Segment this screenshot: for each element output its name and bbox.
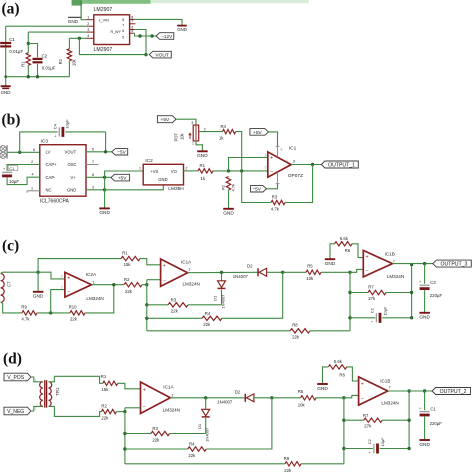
svg-text:+: + [270, 156, 273, 162]
resistor R5 (c) 10k [306, 263, 321, 280]
resistor R2 (c) 22k [124, 277, 142, 294]
svg-text:VOUT: VOUT [155, 53, 168, 59]
svg-text:−5V: −5V [252, 187, 261, 193]
resistor R10 22k [69, 305, 85, 322]
svg-text:R2: R2 [58, 58, 63, 64]
wire POT to ground [196, 141, 202, 151]
svg-text:7: 7 [122, 24, 124, 28]
svg-text:IC1A: IC1A [163, 384, 174, 389]
svg-text:R7: R7 [368, 285, 374, 290]
wire V+ power stub [269, 132, 280, 157]
svg-text:+5V: +5V [253, 130, 263, 136]
svg-text:+: + [366, 254, 369, 260]
flag OUTPUT_3 [433, 260, 472, 268]
svg-text:C3: C3 [430, 280, 436, 285]
svg-text:D2: D2 [235, 390, 241, 395]
svg-text:8: 8 [122, 18, 124, 22]
svg-text:6: 6 [122, 29, 124, 33]
wire coil bottom to R9 [1, 302, 22, 313]
resistor R8 (d) 22k [284, 456, 301, 473]
svg-text:GND: GND [325, 261, 336, 267]
svg-text:3: 3 [87, 28, 89, 32]
svg-text:(b): (b) [2, 112, 21, 129]
svg-text:LM324N: LM324N [86, 296, 103, 301]
svg-text:−: − [366, 269, 369, 275]
svg-text:IC1: IC1 [289, 146, 297, 152]
transformer TR1 [40, 380, 60, 407]
resistor R3 (b) 4.7k [271, 194, 285, 211]
resistor R2 (a) 10k [58, 38, 77, 76]
svg-text:+: + [143, 387, 146, 393]
wire R9 to R10 [37, 311, 70, 314]
svg-text:R1: R1 [200, 163, 206, 168]
svg-text:+: + [369, 451, 371, 455]
svg-text:OUTPUT_2: OUTPUT_2 [440, 389, 467, 395]
svg-text:220µF: 220µF [430, 293, 443, 298]
svg-text:R7: R7 [363, 413, 369, 418]
section label (c) [2, 238, 19, 255]
svg-text:5: 5 [131, 29, 133, 33]
wire VO to R1 [184, 166, 199, 171]
ground symbol C1 (d) [419, 440, 430, 448]
svg-text:IC1B: IC1B [385, 251, 395, 256]
wire bottom feedback R8 (d) [125, 463, 285, 465]
wire V- power stub [267, 172, 280, 188]
wire top rail (c) [38, 259, 121, 273]
op-amp IC1B LM324N (d) [359, 377, 399, 406]
svg-text:TR1: TR1 [55, 387, 60, 396]
wire minus node vertical (d) [123, 408, 126, 464]
svg-text:LV: LV [46, 149, 51, 154]
flag -5V (b) [112, 149, 128, 156]
svg-text:−: − [163, 278, 166, 284]
svg-text:1: 1 [35, 378, 37, 382]
svg-text:+: + [163, 263, 166, 269]
svg-text:4: 4 [32, 173, 34, 177]
svg-text:LM35H: LM35H [168, 186, 184, 192]
resistor R1 (b) 1k [198, 163, 213, 181]
svg-text:1: 1 [87, 16, 89, 20]
svg-text:8: 8 [131, 15, 133, 19]
svg-text:15k: 15k [124, 262, 132, 267]
op-amp IC2A LM324N [65, 272, 104, 301]
svg-text:22k: 22k [188, 453, 196, 458]
svg-text:4.7k: 4.7k [231, 184, 236, 192]
diode D1 (d) 1N4007 [197, 398, 210, 442]
wire minus to IC1A (c) [147, 279, 161, 281]
svg-text:C2: C2 [367, 439, 372, 444]
svg-text:C1: C1 [9, 37, 15, 42]
ground symbol bottom-left (a) [1, 77, 11, 96]
svg-text:(d): (d) [3, 351, 22, 368]
wire R1 to IC1A plus (d) [118, 383, 141, 389]
svg-text:7: 7 [131, 20, 133, 24]
svg-text:LM2907: LM2907 [94, 7, 113, 13]
svg-text:R5: R5 [298, 389, 304, 394]
svg-text:22k: 22k [292, 334, 300, 339]
wire R4 down to minus node [236, 132, 242, 171]
net label GND at pin 1 [68, 17, 81, 24]
wire node to IC2A plus [38, 272, 65, 279]
resistor R2 (b) 4.7k vertical [221, 177, 236, 209]
svg-text:D1: D1 [197, 423, 202, 429]
svg-text:4.7k: 4.7k [271, 206, 280, 211]
svg-text:GND: GND [177, 27, 187, 32]
resistor R8 (c) 22k [290, 322, 310, 339]
wire D2 to R5 (d) [272, 397, 301, 399]
svg-text:GND: GND [223, 211, 234, 217]
svg-text:IC2: IC2 [145, 158, 153, 164]
ground symbol C3 (c) [419, 313, 430, 321]
flag OUTPUT_1 [321, 161, 358, 169]
svg-text:2: 2 [204, 127, 206, 131]
svg-text:10µF: 10µF [383, 306, 388, 316]
svg-text:1N4007: 1N4007 [233, 274, 249, 279]
svg-text:1N4007: 1N4007 [220, 294, 225, 309]
svg-text:1: 1 [188, 268, 190, 272]
resistor R4 (d) 22k [125, 398, 272, 458]
svg-text:R10: R10 [69, 305, 77, 310]
ground symbol right (a) [177, 26, 187, 33]
flag V_POS [4, 373, 31, 381]
svg-text:V+: V+ [71, 175, 77, 180]
svg-text:0.01µF: 0.01µF [9, 49, 23, 54]
svg-text:R3: R3 [171, 297, 177, 302]
wire plus branch (b) [229, 158, 268, 171]
svg-text:GND: GND [158, 177, 167, 182]
flag V_NEG [4, 407, 31, 415]
svg-text:−12V: −12V [161, 34, 173, 39]
wire R10 to output node [85, 285, 114, 313]
svg-text:22k: 22k [125, 289, 133, 294]
wire green bus drop to pin 1 [81, 1, 86, 20]
bottom rail (a) [4, 75, 69, 78]
ground symbol input (c) [33, 292, 44, 300]
resistor R5 (d) 10k [298, 389, 316, 407]
svg-text:10k: 10k [298, 403, 306, 408]
svg-text:2: 2 [265, 165, 267, 169]
svg-text:−: − [67, 289, 70, 295]
svg-text:+: + [67, 276, 70, 282]
wire GND rail to LM35 [105, 185, 164, 190]
svg-text:LM324N: LM324N [387, 274, 404, 279]
wire pin4 to VOUT node [79, 38, 147, 56]
svg-text:1N4007: 1N4007 [217, 400, 233, 405]
svg-text:2: 2 [35, 407, 37, 411]
svg-text:(a): (a) [2, 1, 20, 18]
svg-text:10µF: 10µF [9, 179, 19, 184]
ground symbol R6 (d) [317, 384, 328, 392]
wire minus branch IC2A [51, 285, 65, 313]
diode D1 (c) 1N4007 [213, 272, 226, 308]
wire output right rail (c) [410, 263, 413, 320]
svg-text:+: + [371, 320, 373, 324]
resistor R9 4.7k [21, 305, 37, 322]
IC U1 LM2907 box [94, 7, 130, 53]
wire R1 to opamp minus [213, 169, 268, 172]
svg-text:CAP-: CAP- [46, 175, 57, 180]
svg-text:R4: R4 [189, 442, 195, 447]
svg-text:−: − [361, 397, 364, 403]
wire C1 to pin 4 [7, 173, 40, 185]
potentiometer POT 10k [174, 125, 206, 146]
svg-text:CAP+: CAP+ [46, 162, 58, 167]
resistor R1 (c) 15k [121, 250, 140, 267]
svg-text:3: 3 [191, 121, 193, 125]
svg-text:22k: 22k [70, 317, 78, 322]
svg-text:220µF: 220µF [430, 421, 443, 426]
svg-text:R1: R1 [20, 61, 25, 67]
wire R8 to IC1B node (c) [310, 330, 350, 332]
ground symbol IC3 (b) [99, 208, 110, 216]
svg-text:R1: R1 [101, 374, 107, 379]
wire R6 to IC1B plus (c) [352, 244, 363, 258]
svg-text:NC: NC [46, 188, 52, 193]
svg-text:ICL7660CPA: ICL7660CPA [40, 199, 69, 205]
op-amp IC1A LM324N (d) [141, 382, 181, 414]
wire R5 to IC1B minus (c) [321, 269, 363, 274]
svg-text:LM2907: LM2907 [94, 47, 113, 53]
svg-text:10µF: 10µF [64, 119, 69, 129]
svg-text:R9: R9 [21, 305, 27, 310]
svg-text:22k: 22k [284, 468, 292, 473]
ground symbol POT (b) [197, 151, 208, 159]
capacitor C1 (d) 220uF [419, 391, 442, 440]
svg-text:8: 8 [281, 147, 283, 151]
svg-text:D1: D1 [213, 295, 218, 301]
wire TR1 secondary top [49, 376, 103, 383]
op-amp IC1 OP07Z [265, 146, 304, 180]
wire pin 3 GND [86, 185, 106, 191]
wire POT wiper to R4 [199, 131, 223, 133]
svg-text:22k: 22k [101, 416, 109, 421]
svg-text:27k: 27k [364, 424, 372, 429]
svg-text:C1: C1 [9, 166, 15, 171]
svg-text:IC1B: IC1B [380, 379, 390, 384]
svg-text:1: 1 [93, 280, 95, 284]
svg-text:VO: VO [171, 169, 178, 174]
op-amp IC1B LM324N (c) [363, 250, 404, 279]
svg-text:3: 3 [61, 275, 63, 279]
svg-text:D2: D2 [247, 264, 253, 269]
connector X1 input [0, 145, 7, 158]
svg-text:4.7k: 4.7k [21, 317, 30, 322]
svg-text:LM324N: LM324N [163, 407, 180, 412]
svg-text:+: + [419, 406, 421, 410]
capacitor C2 (a) 0.01uF [33, 54, 56, 77]
svg-text:22k: 22k [152, 438, 160, 443]
resistor R7 (d) 27k [344, 413, 409, 429]
wire R8 to IC1B node (d) [301, 463, 344, 465]
wire pin 4 net [69, 37, 86, 40]
svg-text:OUTPUT_1: OUTPUT_1 [328, 163, 355, 169]
svg-text:+VS: +VS [150, 169, 158, 174]
svg-text:C4: C4 [52, 123, 57, 129]
wire R2 to minus node (c) [142, 283, 149, 286]
svg-text:8: 8 [92, 173, 94, 177]
wire left rail down [5, 26, 7, 76]
svg-text:15k: 15k [101, 387, 109, 392]
svg-text:10k: 10k [180, 132, 185, 140]
svg-text:GND: GND [197, 153, 208, 159]
wire R6 to ground (d) [323, 367, 329, 384]
svg-text:−5V: −5V [117, 150, 126, 156]
wire IC1B output (d) [388, 389, 432, 392]
svg-text:3: 3 [92, 185, 94, 189]
svg-text:GND: GND [99, 210, 110, 216]
wire IC1B output (c) [392, 262, 432, 265]
U1 pin stubs left 1-4 [87, 16, 94, 39]
wire +5V riser to LM35 VS [105, 167, 144, 178]
svg-text:LM324N: LM324N [381, 400, 398, 405]
svg-text:R_WY: R_WY [111, 30, 122, 34]
wire pin 6 to VOUT [135, 30, 147, 55]
resistor R1 (a) vertical [20, 44, 30, 77]
svg-text:0.01µF: 0.01µF [42, 65, 56, 70]
wire node A to C2 [28, 44, 37, 58]
svg-text:R8: R8 [292, 322, 298, 327]
svg-text:27k: 27k [368, 296, 376, 301]
wire coil top to node [1, 271, 40, 274]
wire feedback down (b) [285, 165, 313, 203]
wire pin 8 to GND right [135, 19, 183, 25]
resistor R3 (d) 22k [125, 426, 206, 442]
svg-text:10k: 10k [306, 276, 314, 281]
svg-text:R6: R6 [339, 373, 345, 378]
svg-text:1: 1 [192, 142, 194, 146]
capacitor C2 (c) 10uF feedback [350, 306, 412, 324]
pin 1 NC stub [27, 186, 40, 193]
wire IC2A out to R2 (c) [92, 283, 125, 286]
svg-text:V_NEG: V_NEG [7, 409, 24, 415]
wire top rail right vertical (b) [105, 132, 107, 152]
section label (d) [3, 351, 22, 368]
capacitor C3 220uF [419, 264, 442, 313]
svg-text:1N4007: 1N4007 [205, 427, 210, 442]
section label (b) [2, 112, 21, 129]
svg-text:1: 1 [139, 167, 141, 171]
svg-text:IC1A: IC1A [181, 259, 192, 264]
wire minus node vertical (c) [145, 280, 148, 331]
wire R1 to IC1A plus (c) [140, 259, 161, 265]
svg-text:10k: 10k [72, 58, 77, 66]
svg-text:+: + [419, 280, 421, 284]
svg-text:GND: GND [68, 19, 79, 24]
resistor R4 (b) 1k [219, 124, 236, 141]
svg-text:22k: 22k [203, 322, 211, 327]
svg-text:C2: C2 [42, 54, 48, 59]
svg-text:2: 2 [31, 160, 33, 164]
flag +5V (b) at pin8 [111, 174, 130, 181]
capacitor C4 10uF top (b) [52, 119, 105, 138]
wire TR1 secondary bottom [49, 406, 102, 416]
svg-text:6: 6 [293, 159, 295, 163]
ground symbol R6 (c) [325, 259, 336, 267]
svg-text:4: 4 [87, 34, 89, 38]
flag +5V POT (b) [157, 116, 176, 123]
svg-text:R1: R1 [122, 250, 128, 255]
wire pin 5 VOUT to -5V [86, 147, 112, 153]
svg-text:2: 2 [186, 166, 188, 170]
wire node down to ground (c) [37, 272, 39, 291]
svg-text:6: 6 [33, 148, 35, 152]
resistor R6 (d) 5.6k [328, 359, 346, 378]
svg-text:−: − [270, 169, 273, 175]
svg-text:(c): (c) [2, 238, 19, 255]
wire top rail (b) left vertical [20, 132, 58, 152]
op-amp IC1A LM324N (c) [161, 259, 200, 287]
svg-text:3: 3 [265, 153, 267, 157]
wire V_POS to TR1 [31, 377, 43, 382]
resistor R4 (c) 22k [147, 272, 283, 327]
wire R6 to IC1B plus (d) [347, 367, 359, 381]
wire V+ node down to ground [104, 177, 106, 208]
svg-text:5.6k: 5.6k [340, 236, 349, 241]
capacitor C2 (d) 10uF feedback [344, 437, 409, 455]
IC IC3 ICL7660CPA box [40, 138, 86, 204]
svg-text:+: + [361, 381, 364, 387]
wire pin 2 net from left [6, 25, 87, 27]
wire +5V to POT [176, 119, 196, 125]
svg-text:R5: R5 [307, 263, 313, 268]
svg-text:R3: R3 [272, 194, 278, 199]
svg-text:GND: GND [419, 442, 430, 448]
svg-text:1_VIN: 1_VIN [99, 19, 109, 23]
diode D2 (d) 1N4007 [217, 390, 273, 405]
svg-text:1: 1 [31, 186, 33, 190]
resistor R3 (c) 22k [147, 297, 222, 313]
svg-text:GND: GND [33, 294, 44, 300]
wire minus to IC1A (d) [125, 407, 141, 409]
inductor CT pickup coil [1, 274, 12, 303]
wire D2 to R5 (c) [283, 271, 306, 273]
svg-text:1: 1 [171, 393, 173, 397]
svg-text:2: 2 [61, 285, 63, 289]
IC2 LM35H box [143, 158, 184, 192]
svg-text:R2: R2 [124, 277, 130, 282]
wire node A vertical [27, 32, 29, 43]
svg-text:C2: C2 [369, 308, 374, 313]
wire pin 5 to -12V [135, 33, 157, 38]
wire output OP07 to flag [291, 163, 321, 166]
wire feedback vertical (d) [342, 398, 345, 464]
wire R3 to minus node (b) [242, 171, 271, 203]
svg-text:5: 5 [92, 147, 94, 151]
svg-text:GND: GND [317, 386, 328, 392]
svg-text:R2: R2 [221, 184, 226, 190]
svg-text:2: 2 [87, 22, 89, 26]
pin 7 OSC stub [86, 160, 99, 165]
svg-text:OP07Z: OP07Z [288, 173, 303, 179]
wire bottom feedback R8 (c) [147, 330, 290, 332]
svg-text:CT: CT [7, 281, 12, 287]
junction node A [27, 42, 30, 45]
svg-text:10µF: 10µF [380, 437, 385, 447]
wire V_NEG to TR1 [31, 406, 43, 411]
wire R2 to minus node (d) [116, 410, 126, 413]
svg-text:GND: GND [1, 90, 11, 95]
svg-text:IC2A: IC2A [86, 272, 97, 277]
svg-text:R8: R8 [284, 456, 290, 461]
wire IC1A out (d) [170, 396, 245, 399]
svg-text:5: 5 [122, 36, 124, 40]
svg-text:7: 7 [389, 386, 391, 390]
wire feedback vertical (c) [348, 272, 351, 331]
U1 pin stubs right 8-5 [130, 15, 136, 33]
capacitor C1 (a) 0.01uF [0, 37, 23, 54]
resistor R6 (c) 5.6k [335, 236, 353, 253]
svg-text:C1: C1 [430, 407, 436, 412]
